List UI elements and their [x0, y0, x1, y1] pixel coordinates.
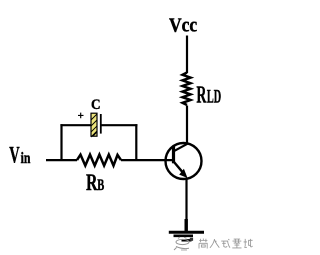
polarity + [78, 113, 84, 119]
char 1 (qian) [199, 239, 207, 249]
svg-text:in: in [21, 150, 31, 167]
resistor RB [77, 155, 121, 166]
wire loop top right [101, 124, 138, 126]
char 3 (shi) [221, 239, 230, 248]
wire RLD to collector [186, 106, 188, 145]
wire loop top left [60, 124, 91, 126]
watermark dark square [190, 238, 193, 241]
capacitor C [91, 113, 101, 137]
svg-text:C: C [91, 97, 101, 113]
svg-text:R: R [196, 82, 206, 109]
watermark icon [174, 237, 189, 250]
char 5 (di) [244, 239, 253, 248]
wire RB to base [121, 159, 173, 161]
wire emitter to ground [185, 179, 187, 232]
svg-text:LD: LD [207, 87, 221, 108]
svg-text:R: R [86, 170, 98, 195]
resistor RLD [183, 73, 191, 106]
wire Vcc to RLD [186, 36, 188, 74]
char 2 (ru) [210, 239, 219, 248]
transistor Q1 [166, 143, 202, 179]
svg-text:Vcc: Vcc [169, 16, 197, 37]
svg-text:B: B [97, 177, 104, 194]
wire loop right vertical [135, 124, 137, 160]
wire Vin to RB [46, 159, 77, 161]
char 4 (ji) [232, 239, 241, 248]
svg-text:V: V [9, 143, 20, 168]
wire loop left vertical [60, 124, 62, 160]
watermark text 嵌入式基地 [199, 239, 253, 249]
ground [169, 232, 204, 240]
